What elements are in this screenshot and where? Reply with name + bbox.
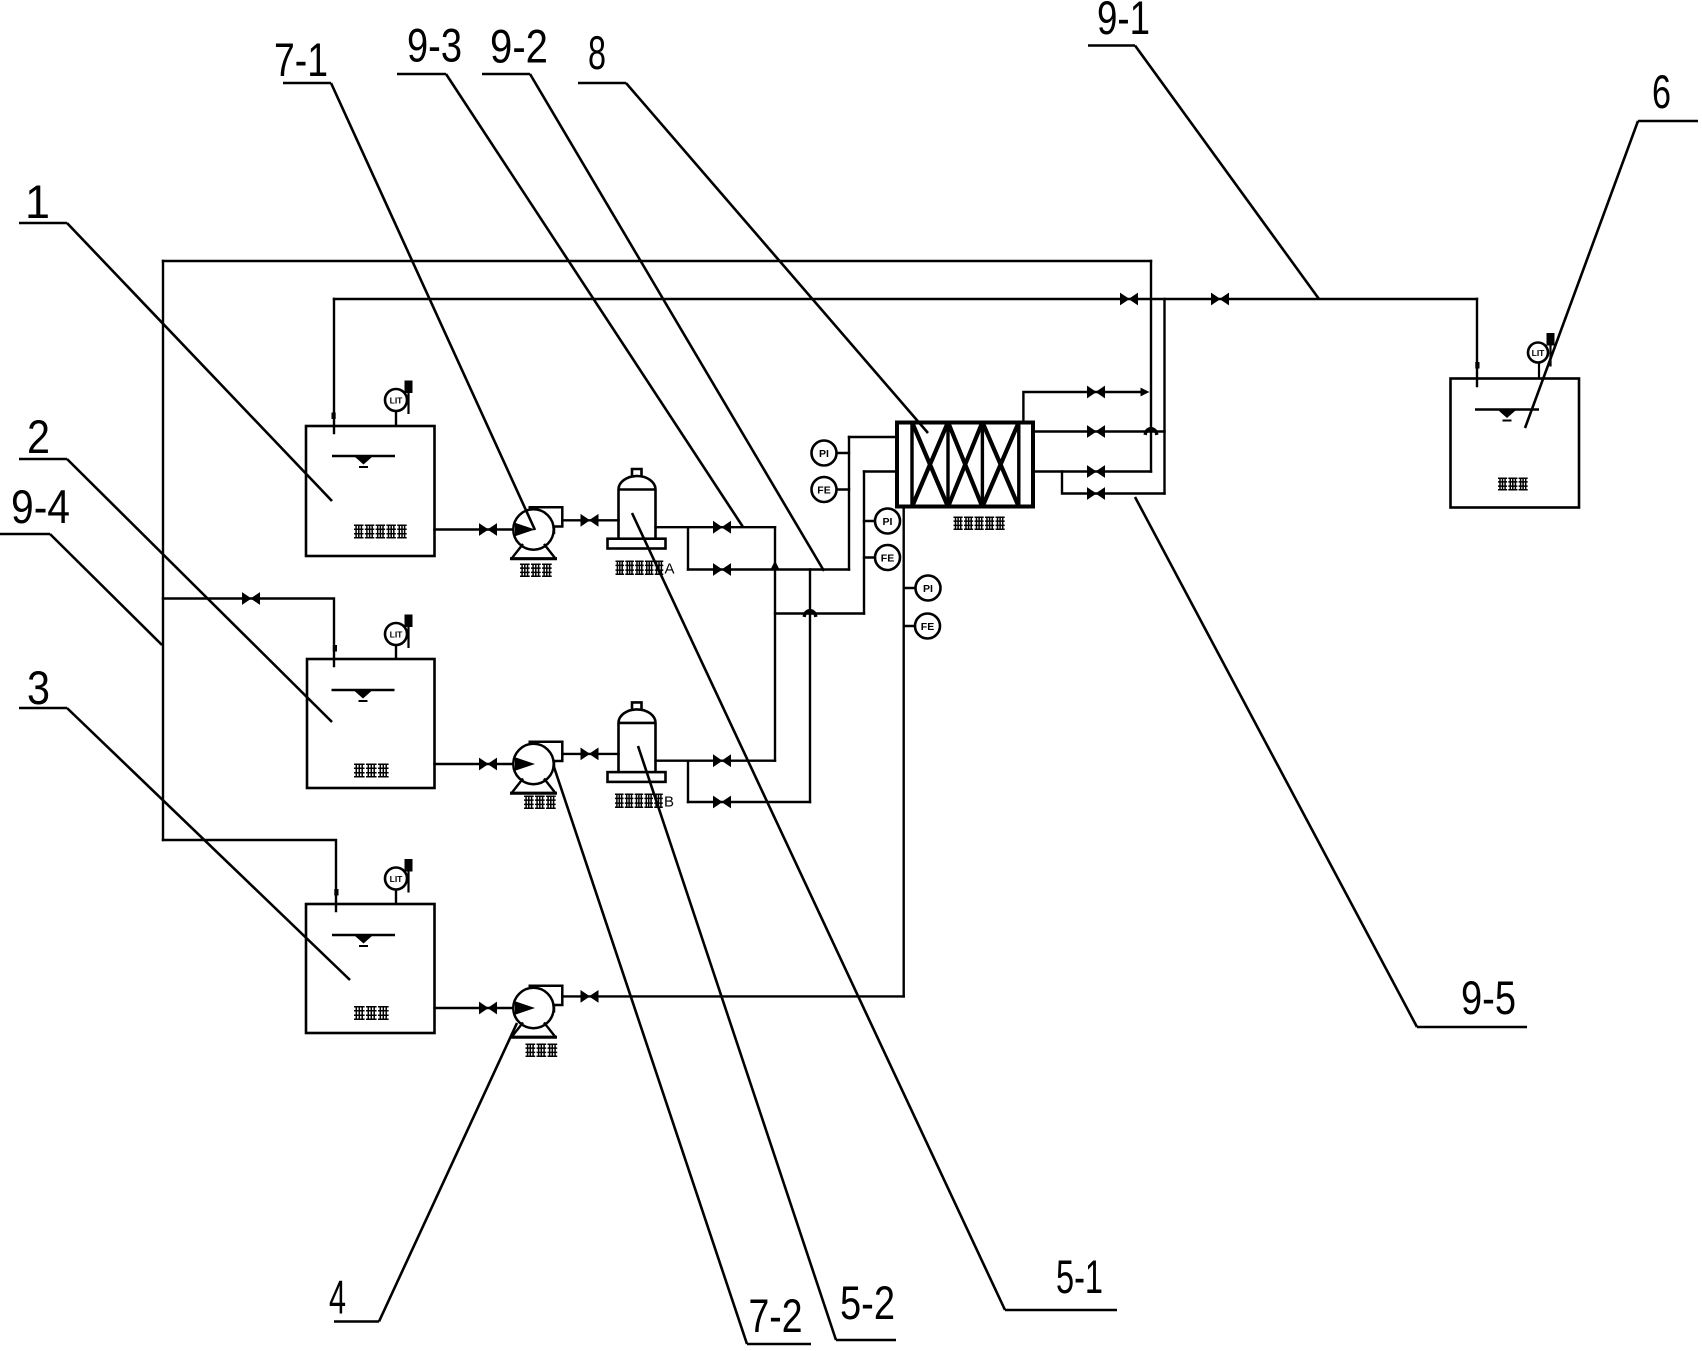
svg-text:FE: FE [921, 621, 934, 633]
leader line for label 4 [334, 1023, 517, 1322]
svg-text:9-1: 9-1 [1097, 0, 1150, 44]
svg-text:LIT: LIT [390, 874, 404, 884]
leader line for label 9-5 [1135, 497, 1527, 1027]
svg-text:LIT: LIT [390, 395, 404, 405]
label text pump3 name 补水泵 [526, 1044, 558, 1056]
svg-text:FE: FE [881, 552, 894, 564]
valve pump3 discharge [581, 990, 599, 1003]
label text pump1 name 增压泵 [520, 564, 552, 576]
svg-text:9-2: 9-2 [490, 20, 548, 73]
instrument LIT right tank (level transmitter) [1528, 333, 1555, 367]
wire: unit bottom riser x=903.7 [903, 507, 905, 997]
svg-text:LIT: LIT [390, 629, 404, 639]
svg-text:PI: PI [883, 516, 893, 528]
pipe joint tick right tank feed [1475, 362, 1479, 369]
instrument FE2 [875, 545, 900, 570]
wire: concentrate return pipe (line2 y=299) [334, 298, 1477, 300]
instrument FE1 [812, 477, 837, 502]
wire: branch to tank 2 [163, 599, 334, 667]
wire: riser to fresh water tank [1476, 299, 1478, 386]
valve unit top return [1087, 386, 1105, 399]
valve tank3 outlet [479, 1002, 497, 1015]
instrument LIT tank3 (level transmitter) [385, 859, 413, 893]
pump P1 增压泵 (booster pump) [510, 507, 562, 559]
leader line for label 5-1 [632, 513, 1117, 1310]
pump P2 淡水泵 (fresh water pump) [510, 742, 562, 794]
leader line for label 9-2 [482, 74, 824, 571]
wire: filter B branch split drop [687, 761, 689, 802]
valve tank1 outlet [479, 523, 497, 536]
wire: pump P1 discharge to filter A [562, 519, 618, 521]
tank 1 浓盐水水箱 (concentrated brine tank) [306, 426, 435, 556]
wire: branch to tank 3 [163, 840, 336, 911]
wire: riser x=864 [863, 472, 865, 614]
wire: main return pipe 9-4 top run (line1 y=261) [163, 260, 1151, 262]
wire: feed drop into tank 1 [333, 299, 335, 433]
junction flow arrow at (775,569.5) [770, 561, 779, 571]
svg-text:7-2: 7-2 [749, 1289, 803, 1342]
water level symbol tank3 [332, 935, 395, 946]
pipe joint tick tank1 feed [332, 413, 336, 420]
wire: lower crossover header y=569.5 (9-2) [688, 568, 849, 570]
svg-text:7-1: 7-1 [274, 33, 328, 86]
label text pump2 name 淡水泵 [524, 796, 556, 808]
crossing hop arc at (810,613.5) [805, 611, 816, 616]
svg-text:9-3: 9-3 [407, 19, 462, 72]
valve filterB branch 2 [713, 796, 731, 809]
wire: pump P2 discharge to filter B [562, 753, 618, 755]
svg-text:5-2: 5-2 [840, 1276, 895, 1329]
wire: filter A outlet branch (upper, 9-3) [656, 526, 776, 528]
leader line for label 9-1 [1088, 46, 1319, 300]
valve filterB branch 1 [713, 754, 731, 767]
valve pump1 discharge [581, 514, 599, 527]
label text filterA name 精密过滤器A [616, 561, 664, 574]
svg-text:1: 1 [25, 175, 50, 228]
svg-text:3: 3 [27, 661, 50, 714]
valve pump2 discharge [581, 748, 599, 761]
tank 2 淡水箱 (fresh water tank) [307, 659, 435, 788]
label text unit name 电渗析装置 [954, 517, 1005, 529]
wire: filter B outlet branch 2 [688, 801, 810, 803]
wire: pump P3 discharge line to unit bottom riser [562, 995, 903, 997]
wire: PI2/FE2 stubs [864, 521, 875, 558]
wire: tank3 outlet to pump P3 [435, 1007, 514, 1009]
leader line for label 1 [19, 223, 332, 501]
wire: riser x=849 [848, 437, 850, 570]
pipe joint tick tank2 feed [333, 645, 337, 652]
wire: tank2 outlet to pump P2 [435, 763, 514, 765]
svg-text:B: B [664, 794, 674, 811]
instrument PI2 [875, 509, 900, 534]
wire: tank1 outlet to pump P1 [435, 528, 514, 530]
water level symbol tank1 [332, 456, 395, 467]
svg-text:9-4: 9-4 [11, 480, 70, 533]
leader line for label 7-1 [283, 83, 535, 530]
wire: unit outlet pipe 3 (y=471.5) [1033, 470, 1151, 472]
valve line2 right [1211, 293, 1229, 306]
wire: LIT2 stem [395, 645, 397, 659]
valve unit outlet 2 [1087, 425, 1105, 438]
leader line for label 2 [19, 459, 332, 722]
label text filterB name 精密过滤器B [615, 794, 663, 807]
svg-text:9-5: 9-5 [1461, 971, 1516, 1024]
wire: unit inlet A (y=437) [849, 436, 897, 438]
wire: LIT3 stem [395, 890, 397, 905]
water level symbol tank2 [332, 690, 395, 701]
svg-text:PI: PI [819, 448, 829, 460]
wire: unit inlet B (y=471.5) [864, 470, 897, 472]
tank 6 淡水箱 (product fresh water tank, right) [1451, 379, 1580, 508]
label text tank2 name 淡水箱 [354, 764, 389, 776]
svg-text:2: 2 [27, 410, 50, 463]
valve tank2 feed [242, 592, 260, 605]
valve line2 left [1120, 293, 1138, 306]
valve crossover header [713, 563, 731, 576]
instrument LIT tank1 (level transmitter) [385, 381, 413, 415]
tank 3 补水箱 (make-up water tank) [306, 904, 435, 1033]
wire: unit outlet pipe 2 (y=431.5) with hop over riser A [1033, 430, 1165, 432]
wire: riser x=775 (filterA/filterB crossover) [774, 527, 776, 761]
water level symbol right tank [1475, 410, 1539, 421]
leader line for label 5-2 [638, 746, 896, 1340]
svg-text:6: 6 [1652, 65, 1671, 118]
wire: PI3/FE3 stubs [904, 588, 916, 626]
crossing hop arc at (1151,431.5) [1146, 429, 1157, 434]
svg-text:LIT: LIT [1532, 348, 1546, 358]
leader line for label 9-3 [397, 74, 743, 527]
svg-text:A: A [665, 561, 675, 578]
instrument PI3 [916, 576, 941, 601]
label text tank3 name 补水箱 [354, 1007, 389, 1019]
svg-text:FE: FE [817, 484, 830, 496]
wire: riser x=810 [809, 570, 811, 803]
wire: drain pipe 4 (9-5) [1062, 472, 1165, 494]
pipe joint tick tank3 feed [334, 889, 338, 896]
valve unit outlet 3 [1087, 465, 1105, 478]
leader line for label 7-2 [554, 767, 811, 1344]
leader line for label 3 [19, 708, 350, 980]
leader line for label 8 [578, 83, 928, 433]
pump P3 补水泵 (make-up pump) [510, 986, 562, 1037]
filter 精密过滤器A (precision filter A) [608, 469, 666, 549]
svg-text:5-1: 5-1 [1056, 1250, 1103, 1303]
wire: unit top outlet pipe 1 to riser A [1023, 392, 1141, 423]
svg-text:8: 8 [588, 26, 606, 79]
wire: header y=613.5 into unit inlet B with hop over x=810 [775, 612, 864, 614]
label text right tank name 淡水箱 [1498, 478, 1528, 489]
instrument PI1 [812, 441, 837, 466]
valve drain 9-5 [1087, 487, 1105, 500]
wire: filter B outlet branch 1 [656, 760, 776, 762]
flow arrowhead into riser A [1141, 388, 1150, 397]
leader line for label 6 [1525, 121, 1698, 428]
wire: vertical A (unit top return riser x=1151) [1150, 261, 1152, 472]
label text tank1 name 浓盐水水箱 [354, 525, 407, 537]
instrument FE3 [915, 614, 940, 639]
leader line for label 9-4 [0, 534, 162, 645]
wire: filter A branch split drop [687, 527, 689, 569]
wire: left frame return riser (9-4) [162, 261, 164, 840]
wire: PI1/FE1 stubs [837, 453, 850, 490]
valve tank2 outlet [479, 758, 497, 771]
svg-text:4: 4 [329, 1271, 346, 1324]
wire: LIT right tank stem [1538, 363, 1540, 379]
filter 精密过滤器B (precision filter B) [608, 702, 666, 781]
instrument LIT tank2 (level transmitter) [385, 615, 413, 649]
wire: vertical B (unit outlet riser x=1164.5) [1163, 299, 1165, 494]
wire: LIT1 stem [395, 411, 397, 426]
valve filterA branch upper [713, 521, 731, 534]
electrodialyzer 电渗析装置 (unit 8) [897, 423, 1033, 507]
svg-text:PI: PI [923, 583, 933, 595]
